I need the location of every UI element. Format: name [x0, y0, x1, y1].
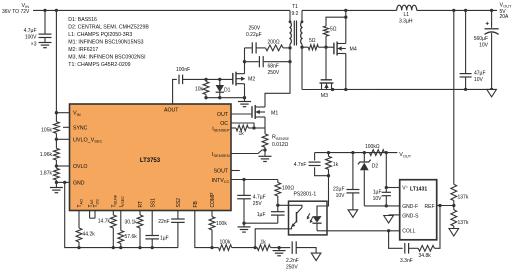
svg-text:VIN: VIN	[73, 111, 81, 117]
ground GND-S	[384, 216, 394, 224]
svg-text:LT1431: LT1431	[410, 186, 427, 192]
svg-text:100kΩ: 100kΩ	[365, 144, 380, 150]
wire OUT to M1 gate	[231, 113, 252, 115]
transistor M4 BSC0902NS NMOS rectifier	[333, 43, 335, 55]
diode D2 zener CMHZ5229B	[363, 153, 365, 162]
transistor M3 BSC0902NS NMOS catch	[321, 79, 332, 81]
wire M2 gate return rail	[206, 97, 245, 99]
svg-text:100V: 100V	[25, 35, 37, 41]
svg-text:×3: ×3	[31, 42, 37, 48]
svg-text:PS2801-1: PS2801-1	[294, 191, 317, 197]
ground M2	[244, 98, 246, 102]
node primary gnd 2.2nF	[277, 246, 280, 249]
wire TAS TOS tie	[89, 211, 91, 219]
node 47uF column	[464, 9, 467, 12]
capacitor 0.22uF 250V clamp	[244, 48, 246, 62]
svg-text:1µF: 1µF	[373, 189, 382, 195]
node 560uF column	[490, 9, 493, 12]
svg-text:OVLO: OVLO	[73, 164, 87, 170]
svg-text:M1: INFINEON BSC190N15NS3: M1: INFINEON BSC190N15NS3	[68, 40, 143, 46]
svg-text:INTVCC: INTVCC	[212, 178, 230, 184]
svg-text:M4: M4	[350, 47, 357, 53]
svg-text:250V: 250V	[286, 264, 298, 270]
ground secondary output	[490, 88, 493, 91]
node comp riser	[438, 204, 441, 207]
svg-text:14.7k: 14.7k	[98, 218, 111, 224]
resistor 100 ohm opto collector	[277, 180, 279, 183]
svg-text:34.8k: 34.8k	[419, 253, 432, 259]
svg-text:REF: REF	[425, 204, 435, 210]
junction input cap	[43, 9, 46, 12]
op-amp U1 LT3753 controller	[70, 104, 232, 211]
wire ground bus left leg	[65, 182, 178, 247]
resistor 30.1k RT	[139, 211, 141, 216]
node sense column	[452, 9, 455, 12]
svg-text:20A: 20A	[500, 14, 510, 20]
node VIN tap	[55, 111, 58, 114]
diode opto LED	[316, 206, 318, 216]
capacitor 22uF 10V bias	[352, 153, 354, 190]
transistor M2 IRF6217 PMOS clamp	[232, 73, 234, 85]
svg-text:RSENSE: RSENSE	[272, 135, 290, 141]
node COLL comp tap	[387, 229, 390, 232]
resistor 57.6k IVSEC	[120, 211, 122, 231]
wire AOUT	[173, 79, 177, 104]
wire opto emitter	[255, 229, 288, 248]
resistor 1k opto	[328, 153, 330, 157]
wire VOUT sense column	[453, 10, 455, 184]
ground divider	[55, 182, 57, 187]
svg-text:68nF: 68nF	[268, 64, 279, 70]
svg-text:4.7nF: 4.7nF	[294, 162, 307, 168]
svg-text:10k: 10k	[195, 87, 204, 93]
svg-text:3.3µH: 3.3µH	[399, 18, 413, 24]
svg-text:FB: FB	[193, 200, 199, 207]
svg-text:30.1k: 30.1k	[125, 219, 138, 225]
node light arrows	[308, 213, 310, 217]
resistor 100k COMP	[211, 211, 213, 217]
svg-text:COLL: COLL	[402, 228, 415, 234]
svg-text:D1: BAS516: D1: BAS516	[68, 17, 97, 23]
node 22uF tap	[351, 151, 354, 154]
capacitor 4.7uF 100V x3 input	[44, 10, 46, 34]
svg-text:5Ω: 5Ω	[309, 38, 316, 44]
svg-text:4.7µF: 4.7µF	[253, 195, 266, 201]
node secondary 5 ohm tap	[300, 46, 303, 49]
wire GND pin	[55, 181, 58, 184]
op-amp U2 LT1431 shunt regulator	[400, 180, 437, 240]
node ISENSEN	[263, 148, 266, 151]
capacitor 1uF SS1	[151, 211, 153, 236]
svg-text:UVLO_VSEC: UVLO_VSEC	[73, 137, 102, 143]
node FB COMP junction	[210, 246, 213, 249]
resistor 100k ohm sense	[370, 150, 385, 156]
svg-text:47µF: 47µF	[474, 70, 486, 76]
transistor opto phototransistor	[289, 205, 303, 207]
node UVLO tap	[55, 138, 58, 141]
svg-text:SS1: SS1	[150, 198, 156, 208]
resistor 5 ohm pullup	[325, 36, 327, 47]
node opto emitter junction	[254, 246, 257, 249]
svg-text:M1: M1	[271, 111, 278, 117]
node opto collector	[276, 204, 279, 207]
svg-text:1.87k: 1.87k	[40, 170, 53, 176]
svg-text:100k: 100k	[220, 239, 231, 245]
svg-text:137k: 137k	[458, 220, 469, 226]
svg-text:LT3753: LT3753	[140, 158, 161, 164]
node phase dot primary	[289, 20, 292, 23]
svg-text:M2: IRF6217: M2: IRF6217	[68, 47, 98, 53]
wire rail to VOUT	[417, 9, 497, 11]
node OVLO tap	[55, 164, 58, 167]
ground INTVCC	[243, 223, 245, 227]
resistor 137k upper	[451, 184, 457, 200]
capacitor 100nF AOUT	[178, 75, 180, 85]
node primary snubber top	[288, 46, 291, 49]
node gate node M3 M4	[324, 46, 327, 49]
wire OC	[231, 123, 254, 128]
svg-text:T1: CHAMPS G45R2-0209: T1: CHAMPS G45R2-0209	[68, 62, 130, 68]
pin SOUT stub	[231, 170, 240, 172]
svg-text:10V: 10V	[336, 193, 346, 199]
svg-text:ISENSEP: ISENSEP	[212, 126, 230, 132]
svg-text:100k: 100k	[216, 221, 227, 227]
svg-text:10V: 10V	[373, 196, 383, 202]
svg-text:4.7µF: 4.7µF	[24, 28, 37, 34]
wire V+ column	[385, 153, 387, 190]
node GND-F junction	[385, 204, 388, 207]
wire REF	[437, 205, 454, 207]
wire GND-S	[389, 214, 400, 216]
resistor 10k gate	[203, 82, 209, 95]
resistor 1.87k	[54, 168, 60, 180]
wire comp riser	[434, 206, 440, 249]
resistor 34.8k comp	[418, 245, 434, 251]
node OC ISENSEP	[252, 126, 255, 129]
capacitor 1uF 10V LT1431	[385, 190, 387, 193]
wire top rail primary	[33, 9, 289, 11]
svg-text:M3: M3	[321, 93, 328, 99]
svg-text:M2: M2	[248, 77, 255, 83]
wire secondary bottom	[301, 44, 303, 90]
capacitor 22nF SS2	[177, 211, 179, 220]
transistor M1 BSC190N15NS3 NMOS	[251, 106, 253, 118]
node 1k 4.7nF tap	[327, 151, 330, 154]
wire M3 gate	[325, 47, 327, 80]
capacitor 4.7nF filter	[314, 153, 316, 161]
wire INTVCC gnd rail	[244, 222, 278, 224]
svg-text:9:2: 9:2	[292, 11, 299, 17]
svg-text:M3, M4: INFINEON BSC0902NSI: M3, M4: INFINEON BSC0902NSI	[68, 55, 145, 61]
node M4 rail	[344, 9, 347, 12]
resistor 1k ISENSEP	[231, 127, 236, 129]
svg-text:D2: D2	[372, 164, 379, 170]
wire opto collector	[278, 204, 289, 206]
node D1 top	[218, 78, 221, 81]
svg-text:SOUT: SOUT	[214, 169, 229, 175]
svg-text:200Ω: 200Ω	[268, 39, 280, 45]
capacitor 1uF opto	[277, 205, 279, 211]
wire V+ pin	[386, 187, 399, 189]
node M2 source	[243, 96, 246, 99]
svg-text:COMP: COMP	[210, 192, 216, 208]
node primary snubber bottom	[288, 60, 291, 63]
ground 22uF	[348, 210, 358, 218]
wire to M1 source	[254, 127, 265, 129]
svg-text:VOUT: VOUT	[399, 152, 411, 158]
svg-text:1k: 1k	[333, 162, 339, 168]
svg-text:SS2: SS2	[176, 198, 182, 208]
svg-text:0.012Ω: 0.012Ω	[272, 142, 289, 148]
capacitor 2.2nF 250V isolation	[279, 247, 290, 249]
svg-text:22nF: 22nF	[158, 219, 169, 225]
wire COLL	[327, 230, 400, 232]
svg-text:1µF: 1µF	[257, 212, 266, 218]
svg-text:OUT: OUT	[217, 112, 229, 118]
svg-text:VOUT: VOUT	[500, 2, 512, 8]
svg-text:10V: 10V	[479, 43, 489, 49]
svg-text:105k: 105k	[41, 127, 52, 133]
svg-text:560µF: 560µF	[474, 36, 488, 42]
wire VOUT sense net	[315, 152, 398, 154]
resistor 44.2k	[76, 228, 82, 242]
svg-text:5Ω: 5Ω	[330, 27, 337, 33]
wire ISENSEN	[231, 150, 265, 154]
capacitor 47uF 10V output	[465, 10, 467, 73]
svg-text:137k: 137k	[458, 194, 469, 200]
node M3 body	[331, 88, 334, 91]
svg-text:36V TO 72V: 36V TO 72V	[2, 9, 30, 15]
ground divider secondary	[449, 229, 459, 237]
ground input cap	[39, 42, 52, 44]
resistor 5 ohm gate M4	[302, 46, 308, 48]
svg-text:44.2k: 44.2k	[83, 232, 96, 238]
ground bias network	[273, 250, 286, 252]
resistor 100k feedback	[212, 247, 219, 249]
node V+ column	[385, 151, 388, 154]
node REF	[452, 204, 455, 207]
node D2 tap	[363, 151, 366, 154]
svg-text:1k: 1k	[261, 239, 267, 245]
node M4 drain tap	[344, 16, 347, 19]
wire primary bottom to switch node	[265, 44, 290, 105]
resistor RSENSE 0.012 ohm	[262, 134, 268, 147]
svg-text:22µF: 22µF	[333, 187, 345, 193]
node phase dot secondary	[301, 20, 304, 23]
wire to opto LED	[317, 176, 329, 215]
svg-text:3.3nF: 3.3nF	[400, 258, 413, 264]
diode D1 BAS516	[219, 78, 221, 80]
wire divider column	[55, 10, 57, 121]
svg-text:57.6k: 57.6k	[125, 234, 138, 240]
svg-text:AOUT: AOUT	[164, 108, 179, 114]
svg-text:RT: RT	[138, 201, 144, 208]
wire M4 source	[345, 56, 347, 90]
svg-text:250V: 250V	[268, 70, 280, 76]
resistor 14.7k TBLNK	[112, 211, 114, 216]
junction divider top	[55, 9, 58, 12]
capacitor 4.7uF 25V INTVCC	[243, 180, 245, 196]
resistor 137k lower	[451, 210, 457, 226]
svg-text:D2: CENTRAL SEMI. CMHZ5229B: D2: CENTRAL SEMI. CMHZ5229B	[68, 25, 149, 31]
ground secondary 2.2nF	[311, 253, 321, 261]
resistor 1.96k	[54, 148, 60, 160]
svg-text:100Ω: 100Ω	[282, 185, 294, 191]
ground RSENSE	[264, 150, 266, 156]
resistor 200 ohm clamp	[266, 45, 284, 51]
node M4 source rail	[344, 88, 347, 91]
svg-text:25V: 25V	[253, 201, 263, 207]
node opto anode	[327, 174, 330, 177]
node GND leg	[63, 181, 66, 184]
pin SYNC stub	[63, 126, 70, 128]
wire secondary ground rail	[302, 88, 492, 90]
svg-text:1µF: 1µF	[160, 235, 169, 241]
svg-text:+: +	[485, 20, 489, 27]
inductor L1 3.3uH	[397, 5, 417, 10]
svg-text:1.96k: 1.96k	[40, 152, 53, 158]
wire opto cathode	[317, 230, 327, 232]
svg-text:1k: 1k	[239, 131, 245, 137]
svg-text:L1: L1	[404, 12, 410, 18]
node INTVCC gnd rail	[242, 222, 245, 225]
node 10k top	[204, 78, 207, 81]
op-amp U3 PS2801-1 optocoupler	[289, 201, 328, 235]
resistor 1k bias	[255, 247, 257, 249]
svg-text:100nF: 100nF	[176, 67, 190, 73]
svg-text:10V: 10V	[474, 77, 484, 83]
wire GND-F	[364, 205, 399, 207]
wire TAO	[78, 211, 80, 229]
svg-text:OC: OC	[220, 121, 228, 127]
svg-text:GND-F: GND-F	[402, 204, 418, 210]
node 4.7uF INTVCC	[242, 178, 245, 181]
svg-text:L1: CHAMPS PQI2050-3R3: L1: CHAMPS PQI2050-3R3	[68, 32, 132, 38]
svg-text:D1: D1	[224, 88, 231, 94]
svg-text:SYNC: SYNC	[73, 125, 88, 131]
wire INTVCC	[231, 179, 278, 181]
svg-text:V⁺: V⁺	[402, 185, 408, 191]
svg-text:0.22µF: 0.22µF	[246, 32, 262, 38]
capacitor 560uF 10V output	[491, 10, 493, 27]
node V+ tee	[385, 186, 388, 189]
wire M2 source leg	[244, 86, 246, 98]
svg-text:GND-S: GND-S	[402, 213, 419, 219]
wire FB	[195, 211, 212, 248]
capacitor 68nF 250V snubber	[245, 61, 259, 63]
svg-text:GND: GND	[73, 180, 85, 186]
svg-text:ISENSEN: ISENSEN	[212, 152, 230, 158]
svg-text:T1: T1	[292, 4, 298, 10]
wire top rail secondary	[302, 9, 397, 11]
resistor 105k	[54, 122, 60, 134]
wire M4 drain	[345, 10, 347, 41]
capacitor 3.3nF comp	[389, 231, 403, 249]
svg-text:2.2nF: 2.2nF	[286, 258, 299, 264]
node clamp	[243, 60, 246, 63]
svg-text:250V: 250V	[249, 25, 261, 31]
wire M2 drain	[244, 62, 246, 71]
